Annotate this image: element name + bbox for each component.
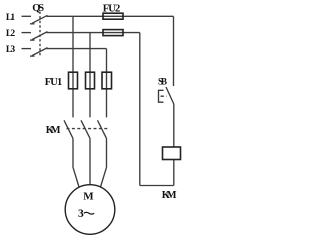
svg-text:QS: QS bbox=[32, 3, 44, 14]
svg-text:FU1: FU1 bbox=[45, 77, 62, 88]
svg-text:M: M bbox=[83, 190, 94, 202]
svg-text:KM: KM bbox=[162, 190, 177, 201]
svg-text:KM: KM bbox=[46, 125, 61, 136]
svg-text:L3: L3 bbox=[6, 45, 15, 55]
svg-text:SB: SB bbox=[158, 76, 167, 86]
svg-text:L2: L2 bbox=[6, 29, 15, 39]
svg-text:L1: L1 bbox=[6, 13, 15, 23]
svg-text:3: 3 bbox=[78, 208, 84, 220]
svg-text:FU2: FU2 bbox=[103, 3, 121, 14]
